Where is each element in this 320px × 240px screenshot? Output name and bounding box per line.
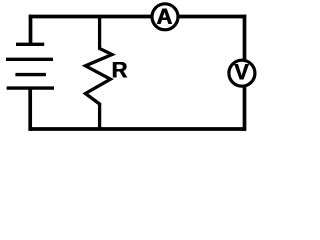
voltmeter V1 label V [234, 59, 250, 84]
wire: top rail (battery + node to ammeter to top-right corner) [29, 15, 246, 19]
resistor R value label [111, 58, 128, 83]
wire: left rail top segment (top-left corner down to battery + plate) [29, 15, 33, 45]
ammeter A1 circle [152, 4, 178, 30]
battery B1 plate 2 (long) [6, 58, 53, 61]
wire: right rail (top-right corner through voltmeter to bottom-right corner) [243, 15, 247, 131]
battery B1 plate 1 (short, top terminal) [16, 43, 44, 46]
svg-text:V: V [234, 59, 249, 84]
svg-text:A: A [157, 4, 173, 29]
battery B1 plate 3 (short) [15, 73, 46, 76]
wire: left rail bottom segment (battery - plate down to bottom-left corner) [28, 88, 32, 131]
wire: bottom rail (bottom-left corner, resistor junction, bottom-right corner) [29, 127, 246, 131]
battery B1 plate 4 (long, bottom terminal) [7, 86, 54, 89]
resistor R (top lead, zigzag body, bottom lead) [85, 15, 112, 130]
ammeter A1 label A [156, 4, 173, 29]
voltmeter V1 circle [229, 60, 255, 86]
svg-text:R: R [112, 58, 128, 83]
